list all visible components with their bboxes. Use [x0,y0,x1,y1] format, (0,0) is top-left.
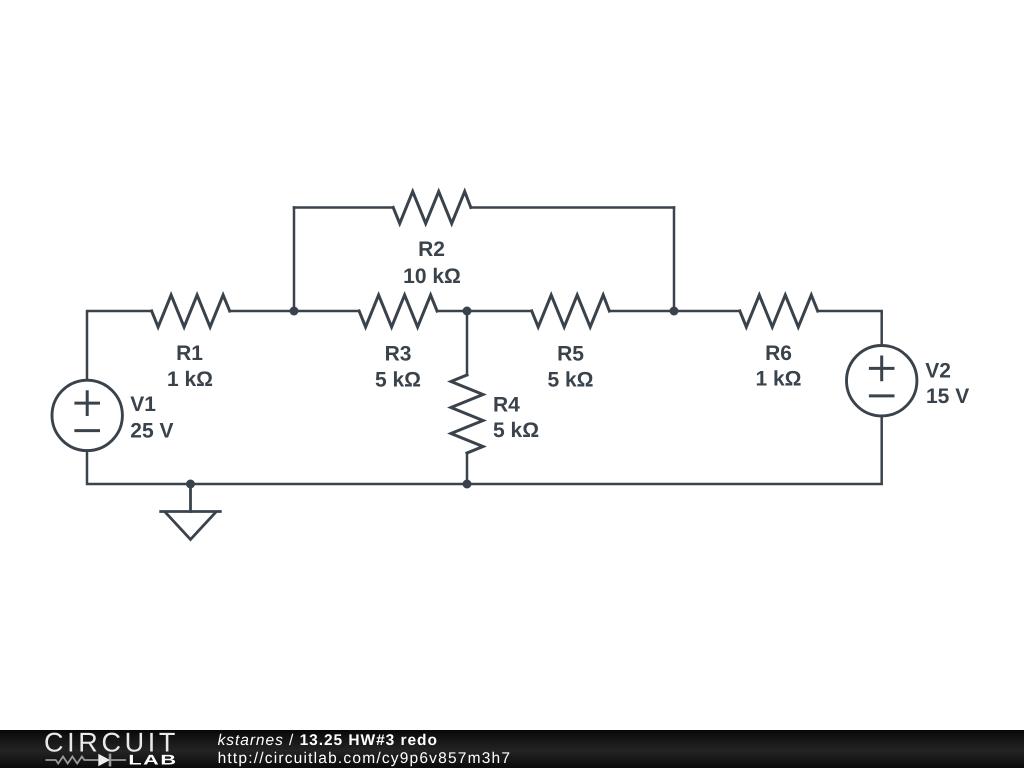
labels [130,238,969,443]
wire R3 to R5 (node B) [437,310,532,313]
resistor R2 [393,192,471,224]
wire R4 bottom lead [466,453,469,484]
wire top-left vertical (node A to R2 left) [293,208,296,312]
resistor R4 [451,375,483,453]
resistor R6 [740,295,818,327]
wire R4 top lead [466,311,469,375]
node B junction dot [463,307,472,316]
svg-text:LAB: LAB [128,751,177,767]
node C junction dot [670,307,679,316]
resistor R5 [532,295,610,327]
node D junction dot (R4 bottom) [463,480,472,489]
voltage source V1 [52,380,122,450]
wire R6 to V2 top [818,311,882,346]
wire R5 to R6 (node C) [609,310,739,313]
svg-text:http://circuitlab.com/cy9p6v85: http://circuitlab.com/cy9p6v857m3h7 [218,750,512,767]
voltage source V2 [847,346,917,416]
wire R2 left lead [294,206,393,209]
ground [161,484,221,540]
wire R2 right lead [471,206,674,209]
footer bar [0,730,1024,768]
resistor R3 [359,295,437,327]
wire R1 to R3 (node A) [230,310,359,313]
logo resistor-diode symbol [46,754,127,767]
ground junction dot [186,480,195,489]
wire top-right vertical (node C to R2 right) [673,208,676,312]
wire V1 top to R1 [87,311,152,380]
resistor R1 [152,295,230,327]
wire bottom rail [87,416,882,484]
node A junction dot [290,307,299,316]
svg-text:kstarnes / 13.25 HW#3 redo: kstarnes / 13.25 HW#3 redo [218,732,438,749]
